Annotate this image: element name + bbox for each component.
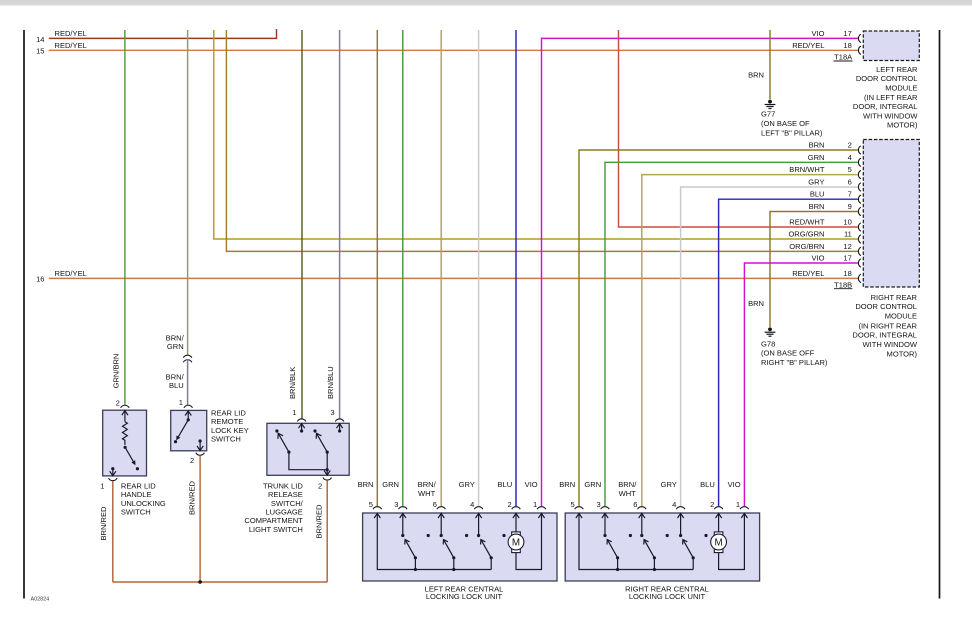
svg-text:BRN/RED: BRN/RED bbox=[315, 504, 324, 539]
svg-text:RED/YEL: RED/YEL bbox=[792, 269, 824, 278]
svg-text:T18A: T18A bbox=[834, 53, 853, 62]
ground G78 bbox=[761, 327, 828, 367]
svg-text:WITH WINDOW: WITH WINDOW bbox=[863, 340, 918, 349]
unlocking switch pin 1 terminal bbox=[100, 467, 117, 490]
wire BRN/BLU lower half to key switch pin 1 bbox=[166, 359, 188, 405]
wire BRN/WHT to left lock unit pin 6 bbox=[440, 30, 442, 506]
svg-text:M: M bbox=[715, 537, 723, 548]
svg-text:6: 6 bbox=[633, 500, 637, 509]
svg-text:GRN: GRN bbox=[584, 480, 601, 489]
svg-text:BLU: BLU bbox=[810, 190, 825, 199]
svg-text:GRY: GRY bbox=[808, 178, 824, 187]
svg-text:REAR LID: REAR LID bbox=[211, 409, 246, 418]
component RIGHT REAR CENTRAL LOCKING LOCK UNIT bbox=[565, 513, 759, 581]
svg-text:RELEASE: RELEASE bbox=[268, 490, 303, 499]
RIGHT REAR CENTRAL motor to pin 1 wiring bbox=[719, 513, 745, 569]
svg-text:16: 16 bbox=[36, 275, 44, 284]
svg-text:BRN: BRN bbox=[809, 141, 825, 150]
trunk switch internal junction bbox=[326, 468, 329, 471]
svg-text:6: 6 bbox=[433, 500, 437, 509]
svg-text:BRN: BRN bbox=[559, 480, 575, 489]
wire BRN/RED bottom bus bbox=[113, 581, 327, 583]
LEFT REAR CENTRAL alternate contact bbox=[502, 534, 505, 537]
wire BRN to left lock unit pin 5 bbox=[376, 30, 378, 506]
switch REAR LID HANDLE UNLOCKING SWITCH bbox=[103, 410, 147, 476]
unlocking switch blade bbox=[124, 446, 139, 471]
svg-text:VIO: VIO bbox=[525, 480, 538, 489]
trunk switch internal wiring bbox=[289, 452, 327, 470]
svg-text:17: 17 bbox=[843, 254, 851, 263]
RIGHT REAR CENTRAL alternate contact bbox=[666, 534, 669, 537]
wire BRN/RED from trunk switch pin 2 bbox=[315, 480, 328, 582]
component LEFT REAR CENTRAL LOCKING LOCK UNIT bbox=[363, 513, 557, 581]
svg-text:BRN: BRN bbox=[358, 480, 374, 489]
svg-text:2: 2 bbox=[116, 399, 120, 408]
RIGHT REAR CENTRAL pin 1 terminal bbox=[728, 480, 749, 518]
T18A pin 18 RED/YEL bbox=[792, 41, 861, 55]
svg-text:A02824: A02824 bbox=[31, 596, 50, 602]
svg-text:11: 11 bbox=[844, 230, 852, 239]
wire ORG/GRN to T18B pin 11 bbox=[214, 30, 858, 239]
RIGHT REAR CENTRAL caption bbox=[625, 585, 709, 601]
svg-text:RED/YEL: RED/YEL bbox=[792, 41, 824, 50]
svg-text:17: 17 bbox=[843, 29, 851, 38]
wire BRN/BLU to trunk switch pin 3 bbox=[326, 30, 340, 419]
trunk switch pin 2 terminal bbox=[318, 470, 332, 491]
junction on BRN/RED bus bbox=[198, 580, 202, 584]
svg-text:1: 1 bbox=[533, 500, 537, 509]
svg-text:RED/WHT: RED/WHT bbox=[789, 218, 825, 227]
T18B pin 17 wire VIO to right lock unit pin 1 bbox=[744, 263, 858, 506]
svg-text:M: M bbox=[512, 537, 520, 548]
svg-text:RED/YEL: RED/YEL bbox=[55, 41, 87, 50]
LEFT REAR CENTRAL pin 4 terminal bbox=[459, 480, 483, 518]
svg-text:BRN/WHT: BRN/WHT bbox=[789, 165, 825, 174]
right page border bus bbox=[939, 30, 941, 599]
svg-text:BLU: BLU bbox=[498, 480, 513, 489]
svg-text:RED/YEL: RED/YEL bbox=[55, 29, 87, 38]
svg-text:5: 5 bbox=[369, 500, 373, 509]
svg-text:18: 18 bbox=[843, 269, 851, 278]
svg-text:BRN/RED: BRN/RED bbox=[187, 480, 196, 515]
svg-text:G77: G77 bbox=[761, 110, 775, 119]
svg-text:15: 15 bbox=[36, 46, 44, 55]
svg-text:MOTOR): MOTOR) bbox=[887, 349, 918, 358]
svg-text:MODULE: MODULE bbox=[885, 84, 917, 93]
wire 16 RED/YEL to T18B pin 18 bbox=[36, 269, 858, 283]
svg-text:GRY: GRY bbox=[459, 480, 475, 489]
RIGHT REAR CENTRAL pin 4 terminal bbox=[661, 480, 685, 518]
svg-text:(IN LEFT REAR: (IN LEFT REAR bbox=[864, 93, 918, 102]
switch REAR LID REMOTE LOCK KEY SWITCH bbox=[171, 410, 207, 450]
LEFT REAR CENTRAL bus junctions bbox=[414, 568, 417, 571]
svg-text:REMOTE: REMOTE bbox=[211, 417, 243, 426]
svg-text:G78: G78 bbox=[761, 339, 775, 348]
trunk switch right contact bbox=[313, 429, 316, 432]
svg-text:1: 1 bbox=[179, 398, 183, 407]
LEFT REAR CENTRAL switch at pin bbox=[401, 513, 417, 569]
svg-text:3: 3 bbox=[596, 500, 600, 509]
svg-text:LEFT "B" PILLAR): LEFT "B" PILLAR) bbox=[761, 128, 823, 137]
key switch pin 1 terminal bbox=[179, 398, 193, 422]
wire VIO from T18A pin 17 to left lock unit pin 1 bbox=[542, 38, 859, 506]
trunk switch left blade bbox=[278, 433, 291, 453]
svg-text:WITH WINDOW: WITH WINDOW bbox=[863, 111, 918, 120]
svg-text:ORG/BRN: ORG/BRN bbox=[789, 242, 824, 251]
T18B pin 9 wire BRN to ground G78 bbox=[748, 212, 858, 328]
T18B pin 6 GRY bbox=[808, 178, 861, 192]
wire BRN to ground G77 bbox=[748, 30, 770, 99]
trunk switch left contact bbox=[275, 429, 278, 432]
resistor inside unlocking switch bbox=[123, 422, 128, 445]
LEFT REAR CENTRAL alternate contact bbox=[465, 534, 468, 537]
T18B pin 18 RED/YEL bbox=[792, 269, 861, 283]
svg-text:BLU: BLU bbox=[700, 480, 715, 489]
LEFT REAR CENTRAL pin 2 terminal bbox=[498, 480, 521, 518]
trunk switch label bbox=[244, 481, 303, 534]
T18B pin 12 ORG/BRN bbox=[789, 242, 861, 256]
svg-text:REAR LID: REAR LID bbox=[121, 481, 156, 490]
svg-text:WHT: WHT bbox=[418, 489, 436, 498]
svg-text:BLU: BLU bbox=[169, 381, 184, 390]
RIGHT REAR CENTRAL internal bus bbox=[579, 513, 693, 569]
svg-text:GRN: GRN bbox=[382, 480, 399, 489]
T18B pin 2 wire BRN to right lock unit pin 5 bbox=[579, 150, 858, 506]
wire BLU to left lock unit pin 2 bbox=[515, 30, 517, 506]
svg-text:RIGHT REAR: RIGHT REAR bbox=[871, 293, 918, 302]
svg-text:BRN/BLK: BRN/BLK bbox=[288, 367, 297, 399]
module T18B RIGHT REAR DOOR CONTROL MODULE bbox=[863, 140, 919, 288]
svg-text:RED/YEL: RED/YEL bbox=[55, 269, 87, 278]
svg-text:SWITCH: SWITCH bbox=[211, 435, 241, 444]
svg-text:LUGGAGE: LUGGAGE bbox=[265, 508, 302, 517]
wire BRN/RED from unlocking switch pin 1 bbox=[99, 481, 113, 582]
wire BRN/GRN upper half to inline connector bbox=[166, 30, 188, 355]
svg-text:RIGHT "B" PILLAR): RIGHT "B" PILLAR) bbox=[761, 358, 828, 367]
svg-text:GRN: GRN bbox=[808, 153, 825, 162]
module T18A LEFT REAR DOOR CONTROL MODULE bbox=[863, 31, 919, 61]
svg-text:LOCKING LOCK UNIT: LOCKING LOCK UNIT bbox=[629, 592, 706, 601]
wire ORG/BRN to T18B pin 12 bbox=[226, 30, 858, 251]
svg-text:1: 1 bbox=[736, 500, 740, 509]
svg-text:TRUNK LID: TRUNK LID bbox=[263, 481, 303, 490]
svg-text:GRY: GRY bbox=[661, 480, 677, 489]
svg-text:LOCK KEY: LOCK KEY bbox=[211, 426, 249, 435]
svg-text:9: 9 bbox=[848, 202, 852, 211]
LEFT REAR CENTRAL pin 3 terminal bbox=[382, 480, 407, 518]
RIGHT REAR CENTRAL pin 3 terminal bbox=[584, 480, 609, 518]
svg-text:BRN: BRN bbox=[748, 299, 764, 308]
svg-text:1: 1 bbox=[100, 482, 104, 491]
T18B pin 17 VIO bbox=[811, 254, 860, 268]
wire 14 RED/YEL bbox=[36, 29, 276, 44]
svg-text:DOOR, INTEGRAL: DOOR, INTEGRAL bbox=[852, 331, 917, 340]
svg-text:UNLOCKING: UNLOCKING bbox=[121, 499, 166, 508]
LEFT REAR CENTRAL internal bus bbox=[377, 513, 491, 569]
svg-text:10: 10 bbox=[843, 218, 851, 227]
key switch pin 2 terminal bbox=[190, 439, 204, 465]
svg-text:GRN/BRN: GRN/BRN bbox=[111, 354, 120, 389]
T18B pin 7 wire BLU to right lock unit pin 2 bbox=[719, 199, 858, 506]
svg-text:1: 1 bbox=[292, 408, 296, 417]
svg-text:5: 5 bbox=[848, 165, 852, 174]
svg-text:2: 2 bbox=[848, 141, 852, 150]
svg-text:DOOR CONTROL: DOOR CONTROL bbox=[855, 302, 917, 311]
svg-text:LOCKING LOCK UNIT: LOCKING LOCK UNIT bbox=[426, 592, 503, 601]
key switch label bbox=[211, 409, 249, 444]
svg-text:GRN: GRN bbox=[167, 342, 184, 351]
T18B pin 4 GRN bbox=[808, 153, 861, 167]
svg-text:MODULE: MODULE bbox=[885, 311, 917, 320]
inline connector on BRN wire bbox=[183, 355, 192, 362]
RIGHT REAR CENTRAL switch at pin bbox=[679, 513, 695, 569]
LEFT REAR CENTRAL pin 5 terminal bbox=[358, 480, 382, 518]
svg-text:HANDLE: HANDLE bbox=[121, 490, 152, 499]
svg-text:3: 3 bbox=[330, 408, 334, 417]
svg-text:3: 3 bbox=[394, 500, 398, 509]
key switch blade bbox=[174, 420, 188, 443]
T18B pin 5 wire BRN/WHT to right lock unit pin 6 bbox=[642, 175, 858, 507]
RIGHT REAR CENTRAL pin 5 terminal bbox=[559, 480, 583, 518]
T18B pin 6 wire GRY to right lock unit pin 4 bbox=[681, 187, 858, 506]
motor M inside LEFT REAR CENTRAL bbox=[508, 513, 524, 552]
trunk switch pin 3 terminal bbox=[330, 408, 344, 432]
svg-text:2: 2 bbox=[507, 500, 511, 509]
LEFT REAR CENTRAL switch at pin bbox=[440, 513, 456, 569]
T18B module description text bbox=[852, 293, 917, 359]
RIGHT REAR CENTRAL bus junctions bbox=[616, 568, 619, 571]
unlocking switch pin 2 terminal bbox=[116, 399, 130, 422]
svg-text:ORG/GRN: ORG/GRN bbox=[788, 230, 824, 239]
svg-text:T18B: T18B bbox=[834, 280, 852, 289]
T18B pin 7 BLU bbox=[810, 190, 861, 204]
svg-text:LIGHT SWITCH: LIGHT SWITCH bbox=[249, 525, 303, 534]
svg-text:6: 6 bbox=[848, 178, 852, 187]
svg-text:BRN: BRN bbox=[809, 202, 825, 211]
svg-text:BRN/RED: BRN/RED bbox=[99, 506, 108, 541]
RIGHT REAR CENTRAL pin 2 terminal bbox=[700, 480, 723, 518]
T18A module description text bbox=[853, 65, 918, 130]
T18A pin 17 VIO bbox=[811, 29, 860, 43]
motor M inside RIGHT REAR CENTRAL bbox=[711, 513, 727, 552]
T18B pin 5 BRN/WHT bbox=[789, 165, 861, 179]
svg-text:(IN RIGHT REAR: (IN RIGHT REAR bbox=[858, 321, 917, 330]
unlocking switch label bbox=[121, 481, 166, 516]
label T18B bbox=[834, 280, 852, 289]
T18B pin 10 RED/WHT bbox=[789, 218, 861, 232]
wire GRN/BRN to unlocking switch pin 2 bbox=[111, 30, 125, 405]
svg-text:2: 2 bbox=[318, 482, 322, 491]
wire 15 RED/YEL to T18A pin 18 bbox=[36, 41, 858, 55]
LEFT REAR CENTRAL pin 6 terminal bbox=[418, 480, 446, 518]
svg-text:BRN/BLU: BRN/BLU bbox=[326, 366, 335, 399]
trunk switch right blade bbox=[316, 433, 329, 453]
LEFT REAR CENTRAL motor to pin 1 wiring bbox=[516, 513, 542, 569]
svg-text:DOOR CONTROL: DOOR CONTROL bbox=[856, 74, 918, 83]
T18B pin 2 BRN bbox=[809, 141, 861, 155]
wire GRN to left lock unit pin 3 bbox=[402, 30, 404, 506]
wire BRN/RED from key switch pin 2 bbox=[187, 456, 200, 582]
svg-text:COMPARTMENT: COMPARTMENT bbox=[244, 516, 303, 525]
svg-text:5: 5 bbox=[570, 500, 574, 509]
switch TRUNK LID RELEASE SWITCH / LUGGAGE COMPARTMENT LIGHT SWITCH bbox=[267, 423, 349, 475]
RIGHT REAR CENTRAL switch at pin bbox=[640, 513, 656, 569]
T18B pin 9 BRN bbox=[809, 202, 861, 216]
svg-text:WHT: WHT bbox=[619, 489, 637, 498]
T18B pin 11 ORG/GRN bbox=[788, 230, 860, 244]
RIGHT REAR CENTRAL switch at pin bbox=[603, 513, 619, 569]
T18B pin 4 wire GRN to right lock unit pin 3 bbox=[605, 162, 858, 506]
RIGHT REAR CENTRAL alternate contact bbox=[629, 534, 632, 537]
svg-text:(ON BASE OF: (ON BASE OF bbox=[761, 119, 810, 128]
svg-text:4: 4 bbox=[470, 500, 474, 509]
svg-text:2: 2 bbox=[190, 456, 194, 465]
LEFT REAR CENTRAL switch at pin bbox=[477, 513, 493, 569]
svg-text:LEFT REAR: LEFT REAR bbox=[876, 65, 918, 74]
svg-text:12: 12 bbox=[843, 242, 851, 251]
top toolbar strip bbox=[0, 0, 972, 5]
wire GRY to left lock unit pin 4 bbox=[478, 30, 480, 506]
svg-text:2: 2 bbox=[710, 500, 714, 509]
LEFT REAR CENTRAL alternate contact bbox=[427, 534, 430, 537]
RIGHT REAR CENTRAL alternate contact bbox=[704, 534, 707, 537]
svg-text:4: 4 bbox=[848, 153, 852, 162]
RIGHT REAR CENTRAL pin 6 terminal bbox=[618, 480, 646, 518]
svg-text:MOTOR): MOTOR) bbox=[887, 121, 918, 130]
svg-text:SWITCH: SWITCH bbox=[121, 508, 151, 517]
svg-text:VIO: VIO bbox=[728, 480, 741, 489]
left page border bus bbox=[23, 30, 25, 599]
wire RED/WHT to T18B pin 10 bbox=[619, 30, 859, 227]
svg-text:SWITCH/: SWITCH/ bbox=[271, 499, 304, 508]
wire BRN/BLK to trunk switch pin 1 bbox=[288, 30, 302, 419]
LEFT REAR CENTRAL caption bbox=[425, 585, 504, 601]
svg-text:(ON BASE OFF: (ON BASE OFF bbox=[761, 349, 815, 358]
svg-text:4: 4 bbox=[672, 500, 676, 509]
ground G77 bbox=[761, 100, 823, 138]
LEFT REAR CENTRAL pin 1 terminal bbox=[525, 480, 546, 518]
label T18A bbox=[834, 53, 854, 62]
svg-text:VIO: VIO bbox=[811, 254, 824, 263]
svg-text:BRN: BRN bbox=[748, 71, 764, 80]
svg-text:7: 7 bbox=[848, 190, 852, 199]
svg-text:VIO: VIO bbox=[811, 29, 824, 38]
trunk switch pin 1 terminal bbox=[292, 408, 306, 432]
svg-text:14: 14 bbox=[36, 35, 44, 44]
svg-text:DOOR, INTEGRAL: DOOR, INTEGRAL bbox=[853, 102, 918, 111]
svg-text:18: 18 bbox=[843, 41, 851, 50]
